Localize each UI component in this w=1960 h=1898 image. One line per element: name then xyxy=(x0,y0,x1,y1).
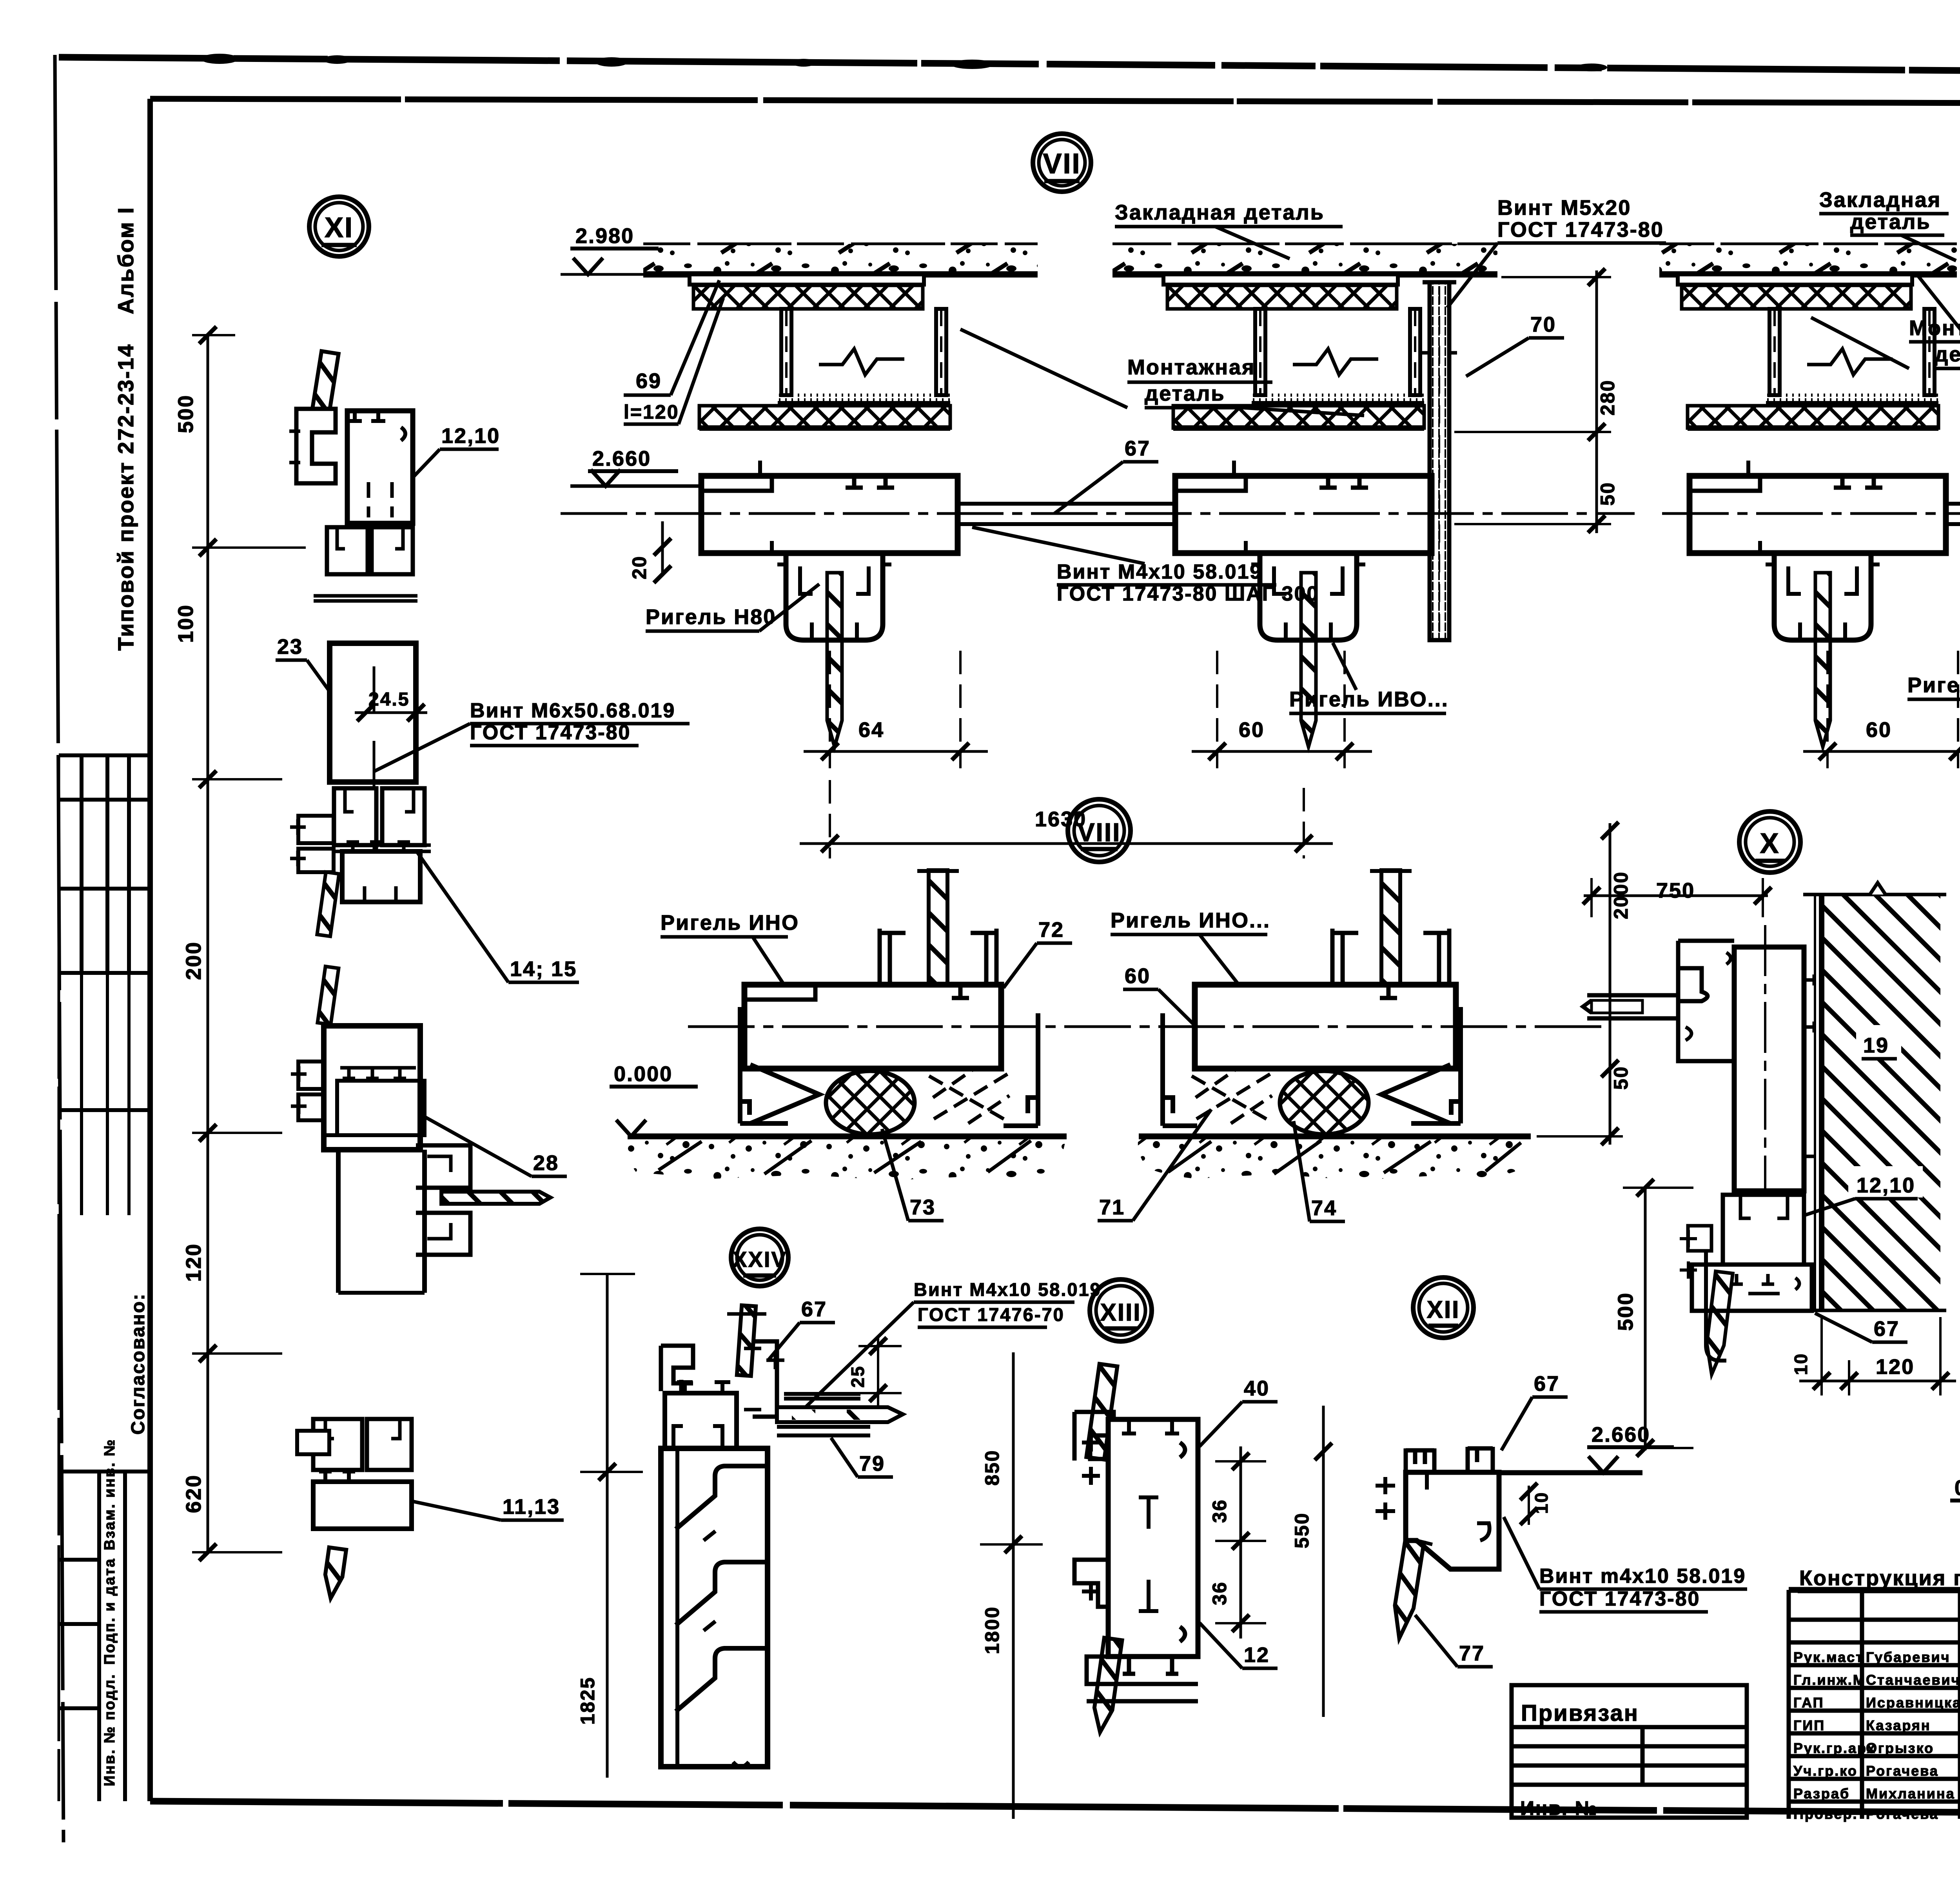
bracket left xyxy=(1688,1226,1711,1251)
svg-text:550: 550 xyxy=(1291,1512,1313,1548)
svg-text:ГАП: ГАП xyxy=(1793,1695,1824,1711)
svg-text:500: 500 xyxy=(1614,1292,1637,1331)
svg-text:71: 71 xyxy=(1099,1196,1125,1219)
svg-text:деталь: деталь xyxy=(1145,382,1225,405)
sheet outer left line xyxy=(55,55,64,1842)
dim 1825 XXIV xyxy=(606,1274,609,1778)
svg-text:Рогачева: Рогачева xyxy=(1866,1806,1939,1822)
svg-text:Губаревич: Губаревич xyxy=(1866,1649,1951,1665)
base shoe xyxy=(740,1007,788,1123)
svg-text:VII: VII xyxy=(1043,148,1081,180)
rail web between assemblies VI xyxy=(1946,504,1960,524)
detail VIII circle xyxy=(1068,799,1131,862)
svg-text:Гл.инж.М: Гл.инж.М xyxy=(1793,1672,1866,1688)
brick wall X xyxy=(1822,895,1940,1310)
ground line + concrete right xyxy=(1139,1134,1531,1140)
svg-text:77: 77 xyxy=(1459,1642,1485,1665)
svg-text:Закладная: Закладная xyxy=(1819,188,1941,212)
svg-text:Инв. № подл.: Инв. № подл. xyxy=(102,1673,118,1786)
hatched tongue X xyxy=(1703,1271,1733,1375)
detail VII circle xyxy=(1033,134,1091,192)
glass bar top XIII xyxy=(1086,1364,1117,1459)
svg-text:280: 280 xyxy=(1597,379,1619,416)
svg-text:l=120: l=120 xyxy=(624,401,679,423)
detail XIII circle xyxy=(1090,1279,1152,1341)
svg-text:Ригель ИНО: Ригель ИНО xyxy=(661,911,799,934)
dim 550 XIII xyxy=(1322,1406,1325,1717)
signature rows xyxy=(1789,1620,1960,1802)
svg-text:24.5: 24.5 xyxy=(368,689,410,710)
svg-text:72: 72 xyxy=(1038,918,1064,942)
svg-text:ГОСТ 17473-80: ГОСТ 17473-80 xyxy=(1497,218,1664,241)
svg-text:67: 67 xyxy=(1534,1372,1560,1395)
glass bar bottom XI xyxy=(322,1548,346,1600)
left dim chain XI xyxy=(207,335,209,1552)
svg-text:Привязан: Привязан xyxy=(1521,1700,1639,1726)
svg-text:0.000: 0.000 xyxy=(614,1062,673,1086)
ground line + concrete left xyxy=(628,1134,1067,1140)
svg-text:500: 500 xyxy=(174,394,198,433)
rail centerline VII xyxy=(561,512,1635,515)
hatched tongue XII xyxy=(1390,1540,1424,1640)
svg-text:11,13: 11,13 xyxy=(503,1495,560,1519)
tall section 2 xyxy=(324,1026,420,1150)
top profile XXIV xyxy=(661,1341,784,1450)
svg-text:Взам. инв. №: Взам. инв. № xyxy=(102,1439,118,1550)
svg-text:Михланина: Михланина xyxy=(1866,1785,1955,1802)
svg-text:Согласовано:: Согласовано: xyxy=(128,1293,149,1435)
svg-text:12,10: 12,10 xyxy=(441,424,500,448)
svg-text:60: 60 xyxy=(1866,718,1892,742)
svg-text:Рук.гр.арх: Рук.гр.арх xyxy=(1793,1740,1876,1756)
svg-text:50: 50 xyxy=(1597,481,1619,506)
svg-text:Винт М4х10 58.019: Винт М4х10 58.019 xyxy=(914,1279,1102,1300)
svg-text:50: 50 xyxy=(1610,1065,1632,1090)
svg-text:2.980: 2.980 xyxy=(575,224,634,248)
T-post hatched xyxy=(929,870,947,985)
svg-text:XIII: XIII xyxy=(1100,1299,1141,1326)
right glazing arm xyxy=(416,1145,470,1255)
frame left line xyxy=(147,99,153,1801)
concrete slab left (VI) xyxy=(1659,244,1957,274)
svg-text:19: 19 xyxy=(1863,1034,1889,1057)
left dim XIII xyxy=(1012,1352,1015,1819)
level line 2.660 VII xyxy=(570,484,704,488)
svg-text:Исравницкая: Исравницкая xyxy=(1866,1695,1960,1711)
sheet outer top rough line xyxy=(59,57,1960,74)
svg-text:69: 69 xyxy=(636,369,662,393)
frame top line xyxy=(150,99,1960,104)
svg-text:Ригель Н80: Ригель Н80 xyxy=(646,605,776,629)
svg-text:Ригель ИНО...: Ригель ИНО... xyxy=(1111,909,1270,932)
svg-text:Рук.маст: Рук.маст xyxy=(1793,1649,1864,1665)
frame bottom line xyxy=(150,1801,1960,1816)
socket section xyxy=(1723,1195,1804,1265)
svg-text:Подп. и дата: Подп. и дата xyxy=(102,1558,118,1665)
svg-text:23: 23 xyxy=(277,635,303,659)
svg-text:XI: XI xyxy=(325,212,354,243)
tall box 23 xyxy=(330,643,416,782)
arm XXIV xyxy=(777,1394,903,1435)
label 19 X xyxy=(1856,1025,1901,1058)
mullion X xyxy=(1583,925,1814,1361)
glass bar mid-2 XI xyxy=(318,966,339,1024)
dim 20 VII xyxy=(661,521,664,576)
dim 60 VII right xyxy=(1217,651,1345,768)
dim 10 120 X xyxy=(1799,1380,1956,1383)
dim 64 VII left xyxy=(830,651,960,768)
svg-text:Закладная деталь: Закладная деталь xyxy=(1115,201,1325,224)
svg-text:10: 10 xyxy=(1531,1492,1552,1514)
svg-text:14; 15: 14; 15 xyxy=(510,957,577,981)
signature table columns xyxy=(1862,1590,1960,1819)
left plates 2 xyxy=(298,1062,336,1120)
centerline VIII xyxy=(688,1025,1610,1028)
svg-text:Уч.гр.ко: Уч.гр.ко xyxy=(1793,1763,1858,1779)
glass bar bottom XIII xyxy=(1091,1638,1122,1733)
svg-text:VIII: VIII xyxy=(1077,818,1121,847)
floor rail left sub xyxy=(740,870,1038,1134)
svg-text:67: 67 xyxy=(1874,1317,1900,1341)
svg-text:ГОСТ 17473-80: ГОСТ 17473-80 xyxy=(1539,1588,1700,1610)
svg-text:70: 70 xyxy=(1530,313,1556,336)
svg-text:28: 28 xyxy=(533,1151,559,1175)
svg-text:60: 60 xyxy=(1125,964,1151,988)
assembly VI left xyxy=(1678,274,1946,747)
rail centerline VI xyxy=(1662,512,1960,515)
svg-text:20: 20 xyxy=(628,555,650,579)
dim 25 XXIV xyxy=(877,1337,879,1407)
svg-text:Типовой проект 272-23-14 Ал: Типовой проект 272-23-14 Альбом I xyxy=(113,207,138,651)
svg-text:Винт М4х10 58.019: Винт М4х10 58.019 xyxy=(1057,561,1262,583)
svg-text:деталь: деталь xyxy=(1935,343,1960,366)
svg-text:2.660: 2.660 xyxy=(1592,1423,1650,1446)
svg-text:750: 750 xyxy=(1656,879,1695,902)
svg-text:Ригель ИВО...: Ригель ИВО... xyxy=(1907,673,1960,697)
rail web between assemblies VII xyxy=(958,504,1176,524)
svg-text:Ригель ИВО...: Ригель ИВО... xyxy=(1289,688,1449,711)
svg-text:1800: 1800 xyxy=(981,1606,1003,1654)
assembly VII left xyxy=(690,274,958,747)
dim 60 VI left xyxy=(1828,651,1958,768)
post socket xyxy=(880,929,996,999)
svg-text:XII: XII xyxy=(1427,1296,1460,1323)
right dim 36 36 XIII xyxy=(1240,1446,1242,1639)
bottom section XI xyxy=(297,1419,412,1529)
svg-text:120: 120 xyxy=(182,1243,205,1282)
joint cluster A xyxy=(334,788,425,845)
svg-text:Винт М6х50.68.019: Винт М6х50.68.019 xyxy=(470,699,675,722)
floor rail right sub xyxy=(1163,870,1461,1134)
detail X circle xyxy=(1739,811,1800,873)
svg-text:73: 73 xyxy=(910,1196,936,1219)
wall channel VII right xyxy=(1422,282,1457,640)
svg-text:74: 74 xyxy=(1311,1196,1337,1220)
assembly VII right xyxy=(1163,274,1432,747)
rail block xyxy=(744,985,1001,1069)
concrete slab right (VII) xyxy=(1112,244,1497,274)
svg-text:Винт М5х20: Винт М5х20 xyxy=(1497,196,1631,220)
top left profile XI xyxy=(289,409,431,902)
svg-text:100: 100 xyxy=(174,604,198,643)
svg-text:XXIV: XXIV xyxy=(732,1247,787,1272)
label 12,10 X xyxy=(1848,1166,1923,1198)
svg-text:67: 67 xyxy=(801,1297,827,1321)
svg-text:60: 60 xyxy=(1239,718,1265,742)
shelf line XII xyxy=(1494,1470,1642,1475)
profile XIII xyxy=(1074,1412,1198,1701)
svg-text:67: 67 xyxy=(1125,437,1151,460)
svg-text:Рогачева: Рогачева xyxy=(1866,1763,1939,1779)
svg-text:ГИП: ГИП xyxy=(1793,1717,1825,1733)
hatched post XXIV xyxy=(737,1305,756,1376)
mineral wool dashed patch xyxy=(929,1070,1009,1123)
detail XXIV circle xyxy=(731,1229,788,1286)
svg-text:36: 36 xyxy=(1209,1499,1230,1523)
glass bar top XI xyxy=(309,351,339,431)
svg-text:X: X xyxy=(1760,828,1780,859)
svg-text:850: 850 xyxy=(981,1450,1003,1486)
joint under main box xyxy=(327,527,413,574)
svg-text:Провер.: Провер. xyxy=(1793,1806,1858,1822)
svg-text:10: 10 xyxy=(1791,1353,1811,1375)
wall channel XXIV xyxy=(661,1448,768,1767)
svg-text:Винт m4х10 58.019: Винт m4х10 58.019 xyxy=(1539,1565,1746,1588)
svg-text:Огрызко: Огрызко xyxy=(1866,1740,1934,1756)
dim 10 XII xyxy=(1528,1486,1530,1525)
profile XII xyxy=(1376,1447,1499,1569)
svg-text:79: 79 xyxy=(859,1452,885,1475)
gasket xyxy=(826,1071,915,1134)
left glazing arm xyxy=(1587,995,1680,1018)
signature texts xyxy=(1793,1649,1960,1822)
svg-text:Конструкция пола: Конструкция пола xyxy=(1799,1566,1960,1590)
svg-text:120: 120 xyxy=(1876,1355,1915,1379)
main box xyxy=(347,411,413,523)
svg-text:Станчаевич: Станчаевич xyxy=(1866,1672,1960,1688)
svg-text:1825: 1825 xyxy=(577,1677,599,1725)
concrete slab left (VII) xyxy=(643,244,1038,274)
sub box B xyxy=(342,851,420,902)
dim 1630 VII xyxy=(830,780,1304,858)
svg-text:ГОСТ 17476-70: ГОСТ 17476-70 xyxy=(918,1304,1065,1325)
svg-text:12,10: 12,10 xyxy=(1857,1174,1915,1197)
glass bar mid-1 XI xyxy=(317,872,339,936)
svg-text:0.000: 0.000 xyxy=(1955,1476,1960,1500)
svg-text:64: 64 xyxy=(858,718,884,742)
right dim chain VIII xyxy=(1609,823,1612,1145)
detail XII circle xyxy=(1413,1277,1474,1338)
svg-text:620: 620 xyxy=(182,1474,205,1513)
svg-text:36: 36 xyxy=(1209,1581,1230,1605)
profile continues down xyxy=(338,1150,425,1293)
left attachment plates xyxy=(298,816,334,872)
bottom assembly xyxy=(1692,1265,1812,1311)
svg-text:Разраб: Разраб xyxy=(1793,1785,1850,1802)
svg-text:Казарян: Казарян xyxy=(1866,1717,1931,1733)
svg-text:200: 200 xyxy=(182,941,205,980)
right dim chain VII xyxy=(1595,270,1598,533)
detail XI circle xyxy=(309,197,369,256)
outer box xyxy=(1789,1587,1960,1593)
svg-text:25: 25 xyxy=(848,1365,868,1388)
svg-text:Инв. №: Инв. № xyxy=(1520,1797,1598,1819)
svg-text:40: 40 xyxy=(1244,1377,1270,1400)
svg-text:12: 12 xyxy=(1244,1643,1270,1667)
svg-text:2.660: 2.660 xyxy=(592,447,651,470)
dim 500 X xyxy=(1644,1187,1647,1450)
svg-text:Монтажная: Монтажная xyxy=(1127,356,1256,379)
top-left profile xyxy=(1678,941,1734,1061)
